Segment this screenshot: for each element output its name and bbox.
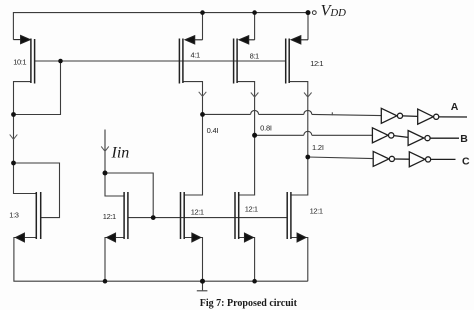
svg-text:12:1: 12:1 [310,59,323,68]
svg-text:12:1: 12:1 [191,208,204,217]
svg-text:8:1: 8:1 [250,52,259,61]
svg-text:0.8I: 0.8I [260,123,272,132]
svg-text:A: A [451,101,459,113]
svg-text:B: B [460,133,468,145]
svg-text:C: C [462,156,470,168]
svg-text:12:1: 12:1 [245,205,258,214]
svg-text:12:1: 12:1 [103,212,116,221]
svg-text:1.2I: 1.2I [312,143,324,152]
svg-text:VDD: VDD [321,3,347,20]
svg-text:1:3: 1:3 [9,211,18,220]
svg-text:Iin: Iin [111,145,130,162]
svg-text:0.4I: 0.4I [207,126,219,135]
svg-text:Fig 7: Proposed circuit: Fig 7: Proposed circuit [200,298,298,309]
svg-text:12:1: 12:1 [310,207,323,216]
svg-text:10:1: 10:1 [13,58,26,67]
svg-text:4:1: 4:1 [191,50,200,59]
